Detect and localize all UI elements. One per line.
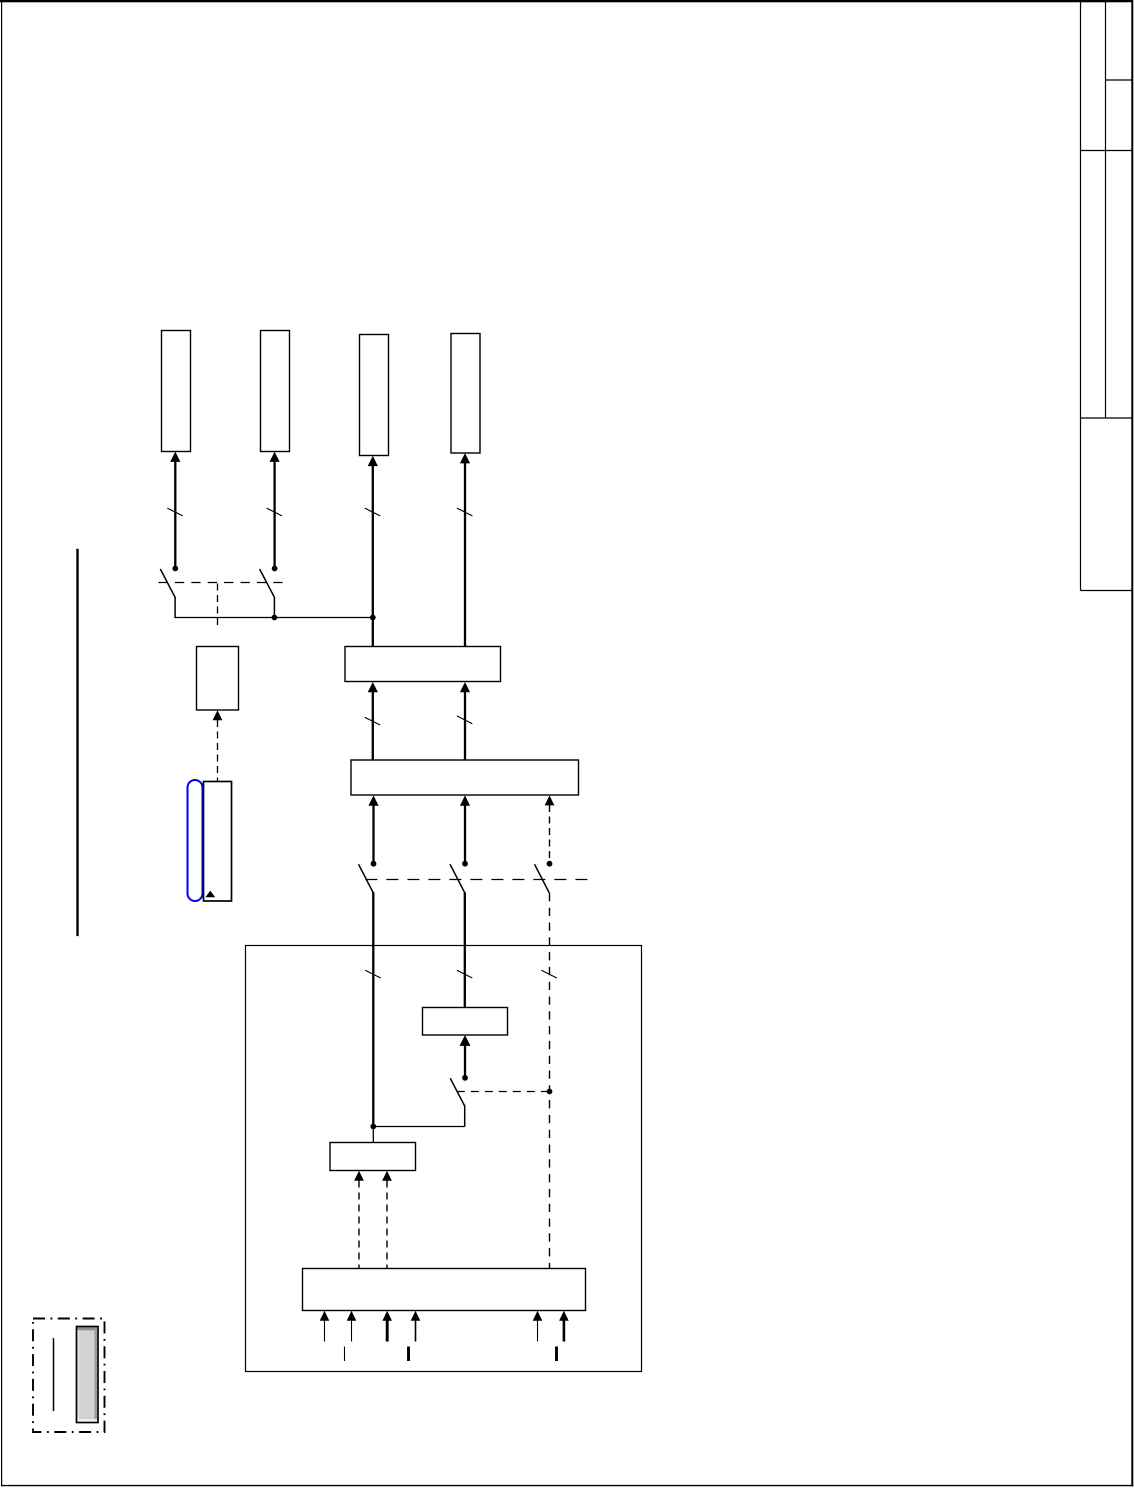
legend button bevel top bbox=[78, 1328, 98, 1331]
phase tick L2 bbox=[267, 508, 282, 516]
block B5 bbox=[303, 1269, 586, 1311]
arrow into L3 bbox=[368, 456, 378, 466]
control box M1 bbox=[197, 647, 239, 711]
load block L2 bbox=[261, 331, 290, 452]
wire B2 to B1 left bbox=[372, 691, 374, 760]
block B4 bbox=[330, 1143, 416, 1171]
sheet border top bbox=[0, 0, 1133, 2]
phase tick U1 line 2 bbox=[457, 970, 472, 978]
arrow into B5 input 3 bbox=[382, 1311, 392, 1321]
interlock link row 1 bbox=[159, 582, 283, 584]
load block L1 bbox=[162, 331, 191, 452]
node B4 feed junction bbox=[370, 1124, 376, 1130]
bus wire bbox=[174, 617, 372, 619]
block B2 bbox=[351, 760, 579, 795]
arrow into B5 input 6 bbox=[559, 1311, 569, 1321]
sheet border left bbox=[1, 1, 3, 1486]
node tap junction bbox=[547, 1089, 553, 1095]
title block divider row 1 bbox=[1106, 79, 1133, 81]
load block L4 bbox=[451, 334, 480, 454]
interlock link row 2 bbox=[365, 879, 587, 881]
wire L2 feed bbox=[273, 461, 275, 569]
legend button body bbox=[77, 1327, 99, 1423]
arrow into B5 input 2 bbox=[347, 1311, 357, 1321]
wire S3 to B2 bbox=[372, 804, 374, 863]
arrow into B1 left bbox=[368, 682, 378, 692]
node switch S4 top bbox=[462, 861, 468, 867]
phase tick L1 bbox=[167, 508, 182, 516]
dashed wire into B4 left bbox=[358, 1181, 360, 1269]
source block SRC1 body bbox=[204, 782, 232, 902]
phase tick U1 line 3 bbox=[541, 970, 556, 978]
title block divider row 3 bbox=[1081, 417, 1133, 419]
dashed tap link bbox=[457, 1091, 550, 1093]
arrow into L1 bbox=[170, 452, 180, 462]
legend divider line bbox=[53, 1338, 55, 1411]
control link drop bbox=[217, 584, 219, 626]
switch S3 blade bbox=[359, 864, 374, 893]
switch S1 blade bbox=[160, 569, 175, 597]
arrow into B2 first bbox=[368, 795, 378, 805]
dashed wire S5 to B2 bbox=[549, 805, 551, 864]
input stub 2 bbox=[407, 1347, 410, 1362]
wire S4 drop bbox=[464, 892, 466, 1007]
dashed wire S5 drop bbox=[549, 893, 551, 1269]
legend dash-dot frame bbox=[33, 1319, 105, 1433]
wire B5 input 3 bbox=[386, 1320, 389, 1341]
phase tick B1 left bbox=[365, 717, 380, 725]
load block L3 bbox=[360, 335, 389, 456]
input stub 1 bbox=[344, 1347, 346, 1362]
wire S3 drop bbox=[372, 892, 374, 1126]
wire B5 input 4 bbox=[415, 1320, 417, 1341]
legend button bevel left bbox=[78, 1330, 80, 1419]
input stub 3 bbox=[555, 1347, 558, 1362]
title block left vertical line bbox=[1080, 2, 1082, 591]
node bus junction 2 bbox=[370, 615, 376, 621]
wire L1 feed bbox=[174, 461, 176, 569]
phase tick B1 right bbox=[457, 716, 472, 724]
node switch S6 top bbox=[462, 1075, 468, 1081]
source block SRC1 marker bbox=[205, 891, 215, 898]
arrow into B2 second bbox=[460, 795, 470, 805]
sheet border bottom bbox=[1, 1485, 1133, 1487]
dashed wire into M1 bbox=[217, 720, 219, 781]
title block bottom line bbox=[1081, 590, 1133, 592]
legend button bevel right bbox=[94, 1328, 97, 1422]
arrow into B3 bbox=[460, 1035, 471, 1046]
phase tick U1 line 1 bbox=[365, 970, 380, 978]
arrow into B4 right bbox=[382, 1171, 392, 1181]
arrow into B5 input 4 bbox=[411, 1311, 421, 1321]
arrow into B5 input 1 bbox=[320, 1311, 330, 1321]
phase tick L4 bbox=[457, 508, 472, 516]
title block middle vertical line bbox=[1105, 2, 1107, 418]
wire S6 to node bbox=[373, 1126, 464, 1128]
node switch S1 top bbox=[172, 566, 178, 572]
switch S2 lead bbox=[273, 597, 275, 618]
node switch S5 top bbox=[547, 861, 553, 867]
wire B5 input 6 bbox=[563, 1320, 566, 1341]
arrow into B5 input 5 bbox=[533, 1311, 543, 1321]
switch S5 blade bbox=[535, 864, 550, 893]
wire node to B4 bbox=[372, 1127, 374, 1143]
switch S6 lead bbox=[464, 1106, 466, 1127]
block B3 bbox=[423, 1008, 508, 1036]
arrow into M1 bbox=[213, 710, 223, 720]
arrow into L4 bbox=[460, 453, 470, 463]
wire B5 input 2 bbox=[351, 1320, 353, 1341]
wire S4 to B2 bbox=[464, 804, 466, 863]
arrow into B1 right bbox=[460, 682, 470, 692]
node switch S3 top bbox=[371, 861, 377, 867]
source block SRC1 oval bbox=[188, 780, 203, 901]
wire L4 feed bbox=[464, 462, 466, 647]
left margin bar bbox=[76, 549, 78, 936]
wire L3 feed bbox=[372, 465, 374, 647]
dashed wire into B4 right bbox=[386, 1181, 388, 1269]
switch S2 blade bbox=[260, 569, 275, 597]
arrow into B2 third bbox=[545, 795, 555, 805]
wire S6 to B3 bbox=[464, 1044, 466, 1078]
sheet border right bbox=[1131, 0, 1133, 1486]
switch S1 lead bbox=[174, 597, 176, 618]
arrow into B4 left bbox=[354, 1171, 364, 1181]
subsystem container U1 bbox=[246, 946, 642, 1372]
legend button bevel bottom bbox=[78, 1419, 98, 1422]
node bus junction 1 bbox=[272, 615, 278, 621]
switch S4 blade bbox=[450, 864, 465, 893]
wire B5 input 1 bbox=[324, 1320, 326, 1341]
node switch S2 top bbox=[272, 566, 278, 572]
wire B2 to B1 right bbox=[464, 691, 466, 760]
block B1 bbox=[345, 647, 501, 682]
arrow into L2 bbox=[270, 452, 280, 462]
title block divider row 2 bbox=[1081, 150, 1133, 152]
wire B5 input 5 bbox=[537, 1320, 539, 1341]
phase tick L3 bbox=[365, 508, 380, 516]
switch S6 blade bbox=[450, 1078, 465, 1106]
